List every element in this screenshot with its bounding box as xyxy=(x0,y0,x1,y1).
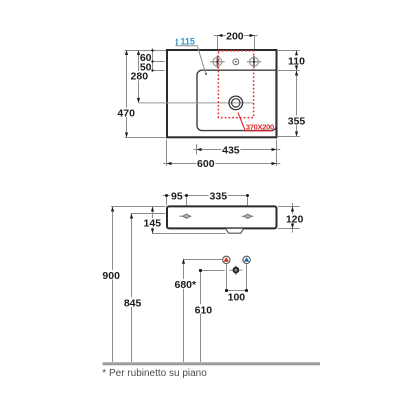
svg-text:110: 110 xyxy=(288,55,305,67)
svg-text:335: 335 xyxy=(210,190,228,202)
svg-text:* Per rubinetto su piano: * Per rubinetto su piano xyxy=(102,368,207,379)
svg-text:845: 845 xyxy=(124,298,142,310)
svg-text:900: 900 xyxy=(102,270,120,282)
svg-text:470: 470 xyxy=(117,108,135,120)
svg-text:370X200: 370X200 xyxy=(246,123,274,132)
svg-text:435: 435 xyxy=(222,145,240,157)
svg-text:95: 95 xyxy=(171,190,183,202)
svg-text:120: 120 xyxy=(286,213,304,225)
svg-text:610: 610 xyxy=(195,304,213,316)
svg-text:280: 280 xyxy=(131,70,149,82)
svg-text:100: 100 xyxy=(228,291,246,303)
svg-text:355: 355 xyxy=(288,116,306,128)
svg-text:115: 115 xyxy=(180,36,195,46)
svg-text:145: 145 xyxy=(144,217,162,229)
svg-text:600: 600 xyxy=(197,158,215,170)
svg-text:680*: 680* xyxy=(174,279,197,291)
svg-text:200: 200 xyxy=(226,31,244,43)
